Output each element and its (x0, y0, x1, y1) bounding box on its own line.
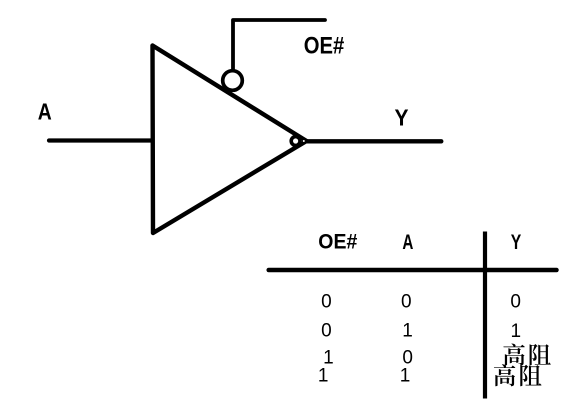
svg-text:0: 0 (510, 291, 521, 312)
svg-text:1: 1 (511, 321, 522, 342)
svg-text:0: 0 (321, 320, 332, 341)
truth table header rule line (269, 268, 557, 273)
output junction white dot (303, 140, 305, 142)
svg-text:Y: Y (395, 105, 409, 131)
wire input A (49, 138, 152, 142)
svg-text:Y: Y (511, 230, 522, 254)
table cell Y row4 高阻 char 阻 (520, 365, 541, 386)
svg-text:0: 0 (321, 292, 332, 313)
truth table column divider line (483, 232, 487, 399)
svg-text:A: A (38, 99, 52, 125)
tri-state buffer U1 triangle (153, 46, 307, 234)
svg-text:1: 1 (318, 366, 329, 387)
output bubble (291, 137, 300, 146)
svg-text:1: 1 (400, 366, 411, 387)
svg-text:0: 0 (401, 292, 412, 313)
svg-text:OE#: OE# (304, 33, 345, 60)
table cell Y row4 高阻 char 高 (494, 364, 515, 386)
svg-text:OE#: OE# (318, 230, 357, 254)
enable bubble (223, 71, 243, 91)
svg-text:1: 1 (402, 321, 413, 342)
table cell Y row3 高阻 char 阻 (530, 344, 551, 365)
svg-text:A: A (402, 230, 413, 254)
wire output Y (306, 139, 441, 143)
wire enable OE# (233, 20, 325, 71)
table cell Y row3 高阻 char 高 (503, 344, 524, 366)
